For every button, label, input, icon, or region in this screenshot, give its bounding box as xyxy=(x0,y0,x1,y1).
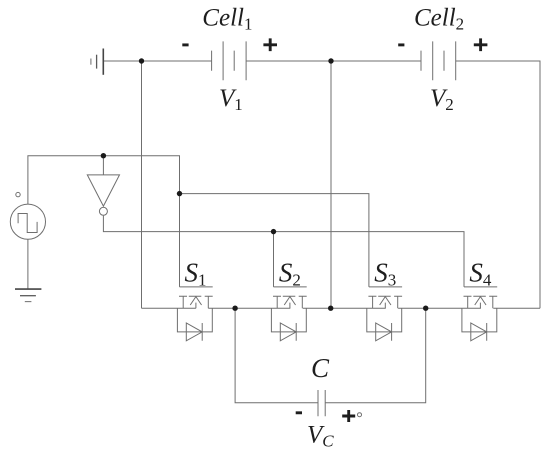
svg-text:V2: V2 xyxy=(430,85,454,114)
svg-text:S3: S3 xyxy=(374,257,396,289)
svg-text:Cell1: Cell1 xyxy=(202,5,252,34)
svg-text:V1: V1 xyxy=(219,85,243,114)
svg-text:C: C xyxy=(311,353,330,383)
svg-text:S1: S1 xyxy=(185,257,207,289)
svg-text:S2: S2 xyxy=(279,257,301,289)
svg-text:VC: VC xyxy=(307,422,334,451)
svg-text:Cell2: Cell2 xyxy=(414,5,464,34)
svg-text:S4: S4 xyxy=(469,257,492,289)
